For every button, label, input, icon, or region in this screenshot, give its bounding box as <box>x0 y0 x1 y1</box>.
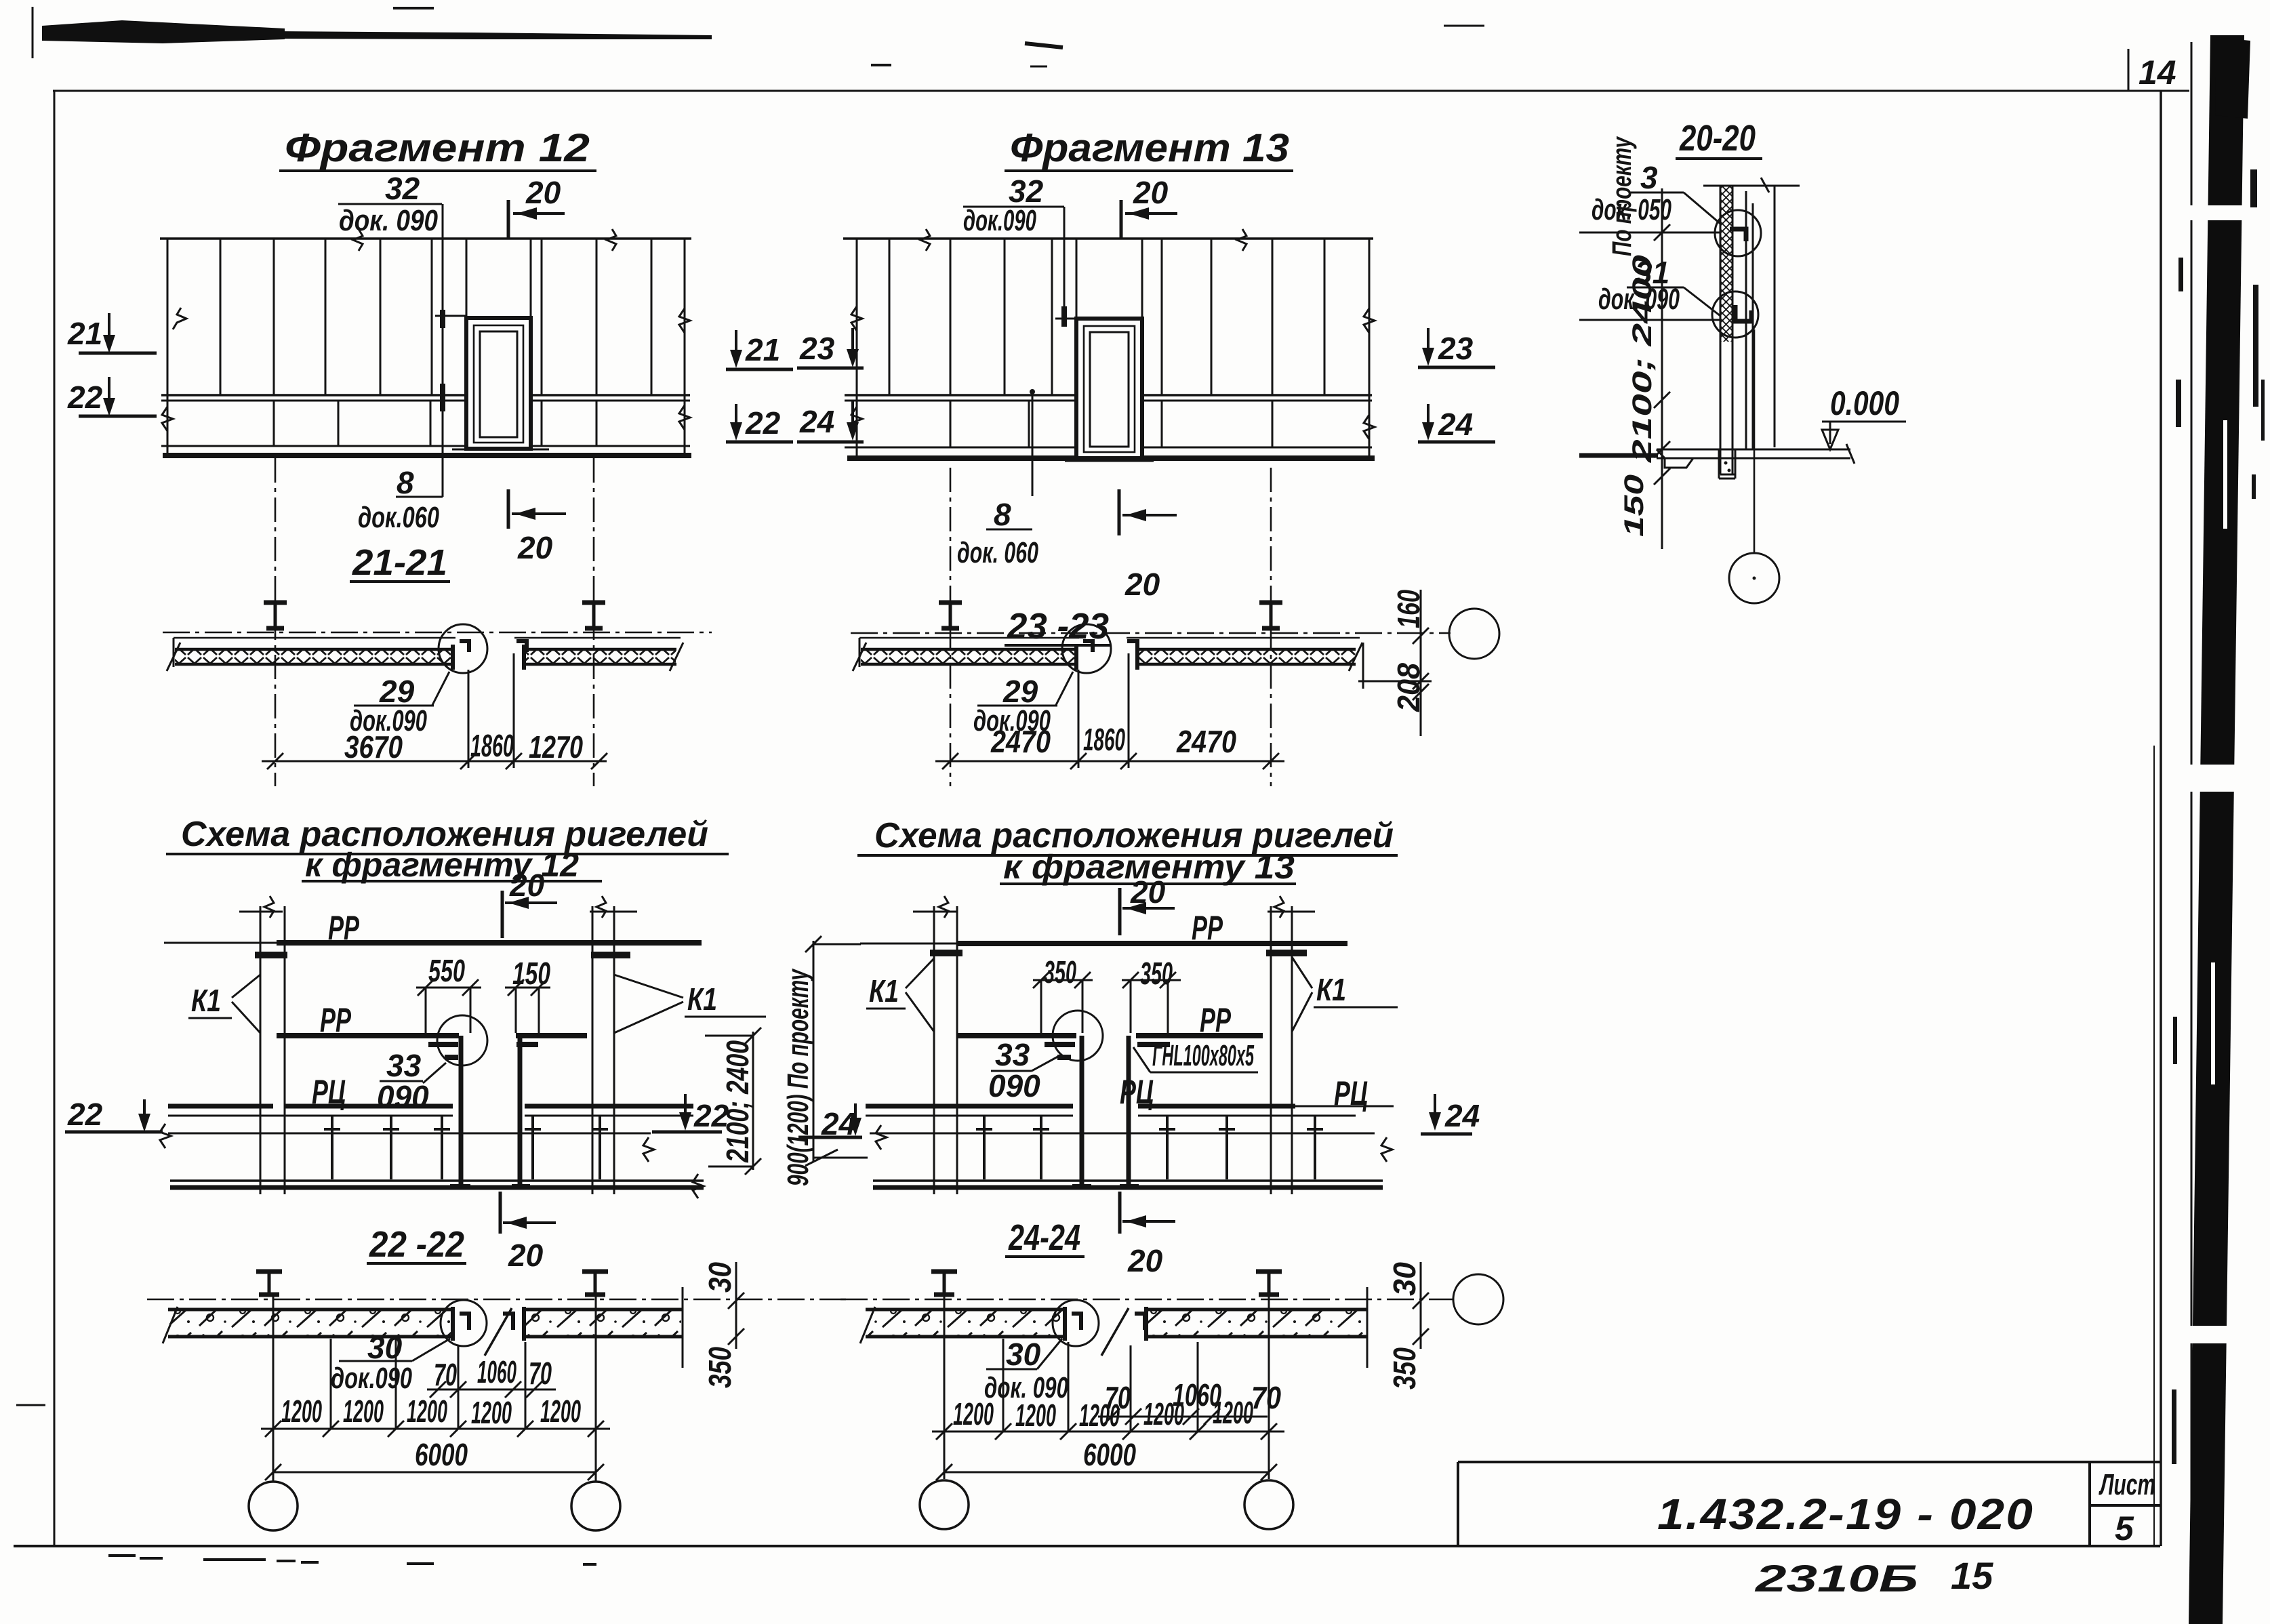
door frag13 <box>1076 319 1142 458</box>
svg-text:23: 23 <box>799 331 835 366</box>
svg-text:2470: 2470 <box>1176 724 1236 759</box>
svg-text:1200: 1200 <box>953 1396 994 1432</box>
I-column symbol left <box>264 603 287 628</box>
svg-text:090: 090 <box>988 1068 1040 1103</box>
I-column symbol right <box>582 603 605 628</box>
dimension line 21-21 <box>262 653 607 769</box>
column K1 left (scheme12) <box>239 896 287 1194</box>
svg-text:70: 70 <box>1251 1380 1281 1415</box>
svg-text:090: 090 <box>377 1079 429 1114</box>
page frame right inner line <box>2153 746 2155 1546</box>
grid circle left (24-24) <box>920 1480 969 1529</box>
ground heavy line <box>163 453 691 458</box>
wall plan band left segment <box>167 638 455 671</box>
svg-text:33: 33 <box>386 1048 422 1083</box>
svg-text:1860: 1860 <box>1083 722 1125 757</box>
grid circle right of 23-23 <box>1449 609 1499 659</box>
binding speckles <box>2172 169 2265 1464</box>
left mark 22 <box>67 377 157 416</box>
detail circle bottom (20-20) <box>1712 291 1758 338</box>
section cut mark 20 (top) <box>508 175 565 239</box>
witness lines 24-24 <box>944 1296 1269 1479</box>
wall panel strip 20-20 <box>1720 186 1735 474</box>
svg-text:33: 33 <box>995 1037 1030 1072</box>
I-beam symbol left 22-22 <box>256 1272 282 1295</box>
title block: Лист label <box>2099 1468 2155 1501</box>
beam PP top (scheme12) <box>164 909 702 947</box>
left mark 24 (between schemes) <box>798 1103 862 1141</box>
svg-text:20: 20 <box>509 868 545 903</box>
svg-text:22 -22: 22 -22 <box>369 1224 464 1265</box>
beams РЦ (scheme12) <box>168 1073 693 1111</box>
break zigzags on frag12 <box>162 229 690 431</box>
steel angle bracket right of joint 21-21 <box>516 641 527 652</box>
top-left scan smudge <box>42 20 712 43</box>
svg-text:24: 24 <box>799 404 834 439</box>
svg-text:К1: К1 <box>1316 972 1346 1007</box>
floor slab left segment 22-22 <box>163 1307 454 1343</box>
floor slab right segment 24-24 <box>1146 1287 1367 1368</box>
dim texts 3670 1860 1270 <box>344 728 583 765</box>
right mark 24 <box>1418 404 1495 442</box>
svg-text:РЦ: РЦ <box>1120 1073 1154 1111</box>
slab joint brackets 24-24 <box>1072 1314 1081 1330</box>
title: Фрагмент 12 <box>279 126 596 171</box>
section cut mark 20 (24-24) <box>1120 1192 1175 1278</box>
binding band white gaps <box>2181 205 2250 1343</box>
wall axis line 23-23 <box>851 632 1451 634</box>
svg-text:Лист: Лист <box>2099 1468 2155 1501</box>
svg-text:2470: 2470 <box>990 724 1051 759</box>
wall axis dash-dot line <box>163 632 712 634</box>
upper panel joints <box>220 239 651 395</box>
floor edge line (scheme12) <box>168 1115 693 1117</box>
page frame left line <box>54 91 56 1545</box>
svg-text:350: 350 <box>702 1347 737 1388</box>
label ГН 100x80x5 <box>1133 1039 1258 1072</box>
dims 70 1060 70 (24-24) <box>1098 1377 1281 1425</box>
dimension line 23-23 <box>935 653 1284 769</box>
left dim column (20-20) <box>1607 136 1670 549</box>
bottom margin dashes <box>16 1405 596 1564</box>
label 8 / док.060 frag13 <box>957 389 1038 569</box>
horizontal band joint (double line) <box>161 394 690 397</box>
title block: document number <box>1657 1490 2034 1539</box>
beam PP top (scheme13) <box>860 909 1347 947</box>
channel glyph bottom <box>1735 305 1751 321</box>
dims 1200 x5 (24-24) <box>953 1395 1253 1433</box>
page frame bottom line <box>14 1545 2160 1547</box>
label К1 left <box>188 975 260 1033</box>
svg-text:32: 32 <box>385 171 420 206</box>
right mark 24 (scheme13) <box>1421 1094 1480 1134</box>
lower panel joints <box>274 401 596 446</box>
inner face lines 20-20 <box>1746 186 1775 449</box>
page frame top line <box>53 90 2189 92</box>
svg-text:350: 350 <box>1387 1347 1422 1389</box>
svg-text:6000: 6000 <box>1083 1437 1136 1472</box>
svg-text:22: 22 <box>745 405 781 441</box>
svg-text:20: 20 <box>1130 874 1166 910</box>
rotated dim 900(1200) По проекту (scheme13 left) <box>782 936 868 1186</box>
svg-text:70: 70 <box>434 1357 457 1392</box>
svg-text:20-20: 20-20 <box>1679 118 1756 159</box>
steel angle brackets 23-23 <box>1083 641 1093 652</box>
svg-text:РР: РР <box>328 909 359 947</box>
right dims 30 / 350 (24-24) <box>1387 1262 1429 1389</box>
grid circle right of 24-24 axis <box>1453 1274 1503 1324</box>
wall elevation outline frag12 <box>160 239 691 455</box>
title: 22-22 <box>367 1224 466 1265</box>
wall plan band right segment 23-23 <box>1127 638 1362 671</box>
dims 70 1060 70 (22-22) <box>427 1354 556 1398</box>
handwritten archive number 2310Б 15 <box>1755 1554 1994 1600</box>
grid circle left (22-22) <box>249 1482 298 1530</box>
door posts (scheme13) <box>1072 1036 1139 1187</box>
column K1 left (scheme13) <box>913 896 962 1194</box>
svg-text:22: 22 <box>67 380 103 415</box>
title: 24-24 <box>1005 1217 1085 1258</box>
svg-text:1200: 1200 <box>407 1394 447 1429</box>
I-column symbol left 23-23 <box>939 603 962 628</box>
svg-text:22: 22 <box>67 1097 103 1132</box>
svg-text:2310Б: 2310Б <box>1755 1557 1918 1600</box>
dimension line 1200s (22-22) <box>261 1421 610 1437</box>
svg-text:30: 30 <box>1387 1262 1422 1296</box>
svg-text:1200: 1200 <box>1143 1396 1184 1432</box>
title block <box>1458 1462 2161 1546</box>
label 32 / док.090 <box>338 171 443 497</box>
svg-text:208: 208 <box>1391 663 1426 712</box>
svg-text:1200: 1200 <box>1079 1398 1120 1433</box>
I-beam symbol right 22-22 <box>582 1272 608 1295</box>
axis line 24-24 <box>840 1299 1453 1301</box>
svg-text:док.090: док.090 <box>331 1362 412 1395</box>
break zigzags frag13 <box>851 229 1375 439</box>
dim 350 right <box>1122 956 1181 1033</box>
svg-text:1200: 1200 <box>281 1394 322 1429</box>
svg-text:21: 21 <box>67 316 102 351</box>
right mark 22 (scheme12) <box>652 1094 729 1133</box>
middle mark 24 <box>797 401 864 442</box>
title: Фрагмент 13 <box>1005 126 1293 171</box>
svg-text:1270: 1270 <box>529 729 583 765</box>
svg-text:550: 550 <box>428 953 465 988</box>
svg-text:РР: РР <box>1200 1001 1231 1039</box>
svg-text:20: 20 <box>517 530 553 565</box>
detail circle 21-21 <box>439 624 487 673</box>
slab joint brackets 22-22 <box>460 1314 469 1330</box>
svg-text:150: 150 <box>1619 474 1649 537</box>
middle mark 23 <box>797 328 864 368</box>
wall plan band left segment 23-23 <box>853 638 1079 671</box>
leader + label 29 / док.090 (23-23) <box>973 672 1073 737</box>
joint slash 24-24 <box>1101 1308 1129 1356</box>
witness line to circle bottom <box>1579 319 1720 321</box>
I-column symbol right 23-23 <box>1259 603 1282 628</box>
svg-text:1200: 1200 <box>343 1394 384 1429</box>
beam hangers (scheme12) <box>324 1116 608 1179</box>
label 33 / 090 <box>377 1048 446 1114</box>
beams РЦ (scheme13) <box>866 1073 1394 1112</box>
svg-text:РР: РР <box>320 1001 351 1039</box>
svg-text:20: 20 <box>1133 175 1169 210</box>
label 30 / док.090 (22-22) <box>331 1330 450 1395</box>
label 31 / док.090 <box>1598 255 1720 316</box>
svg-text:1200: 1200 <box>1213 1395 1253 1430</box>
left mark 21 <box>67 313 157 353</box>
left mark 22 (scheme12, at page margin) <box>65 1097 163 1132</box>
I-beam symbol left 24-24 <box>931 1272 957 1295</box>
dims 1200 x5 (22-22) <box>281 1394 581 1430</box>
floor edge line (scheme13) <box>866 1115 1356 1117</box>
dimension line 1200s (24-24) <box>932 1423 1284 1440</box>
label К1 right (scheme13) <box>1292 957 1398 1032</box>
svg-text:6000: 6000 <box>415 1437 468 1472</box>
right mark 23 <box>1418 328 1495 367</box>
I-beam symbol right 24-24 <box>1256 1272 1282 1295</box>
wall plan band right segment <box>514 638 683 671</box>
svg-text:РР: РР <box>1192 909 1223 947</box>
level mark 0.000 <box>1822 384 1906 449</box>
door sill line <box>452 449 549 451</box>
svg-text:К1: К1 <box>191 983 221 1018</box>
svg-text:док. 060: док. 060 <box>957 536 1038 569</box>
svg-text:РЦ: РЦ <box>1334 1074 1368 1112</box>
dim texts 2470 1860 2470 <box>990 722 1236 759</box>
svg-text:док.060: док.060 <box>358 501 439 534</box>
angle glyph top <box>1730 229 1746 241</box>
svg-text:РЦ: РЦ <box>312 1073 346 1111</box>
svg-text:30: 30 <box>702 1262 737 1293</box>
svg-text:5: 5 <box>2115 1509 2134 1547</box>
floor slab lines (20-20) <box>1579 444 1854 468</box>
label К1 left (scheme13) <box>866 958 934 1032</box>
title: 20-20 <box>1676 118 1762 159</box>
rotated dim 2100; 2400 (scheme12 right) <box>705 1028 761 1175</box>
svg-text:ГНL100x80x5: ГНL100x80x5 <box>1152 1039 1254 1072</box>
dim 6000 (24-24) <box>936 1437 1277 1480</box>
svg-text:док. 090: док. 090 <box>339 204 438 237</box>
door posts (scheme12) <box>450 1036 530 1187</box>
grid circle right (22-22) <box>571 1482 620 1530</box>
top scan dashes <box>33 7 1484 66</box>
svg-text:1860: 1860 <box>470 728 514 763</box>
svg-text:1200: 1200 <box>471 1395 512 1430</box>
dim 6000 (22-22) <box>265 1437 604 1480</box>
door frag12 <box>466 318 531 449</box>
floor slab right segment 22-22 <box>524 1287 683 1368</box>
detail circle 23-23 <box>1062 624 1111 673</box>
axis line 22-22 <box>147 1299 846 1301</box>
detail circle scheme13 <box>1053 1011 1103 1061</box>
section cut mark 20 (top) frag13 <box>1121 175 1177 239</box>
dim 350 left <box>1033 954 1093 1033</box>
section cut mark 20 (22-22) <box>500 1192 556 1273</box>
label К1 right <box>614 975 766 1033</box>
label 33 / 090 (scheme13) <box>988 1037 1061 1103</box>
svg-text:23: 23 <box>1438 331 1474 366</box>
label 32 / док.090 frag13 <box>963 174 1064 327</box>
detail circle 24-24 <box>1053 1300 1099 1346</box>
right end dims 160 / 208 <box>1358 590 1432 736</box>
door jamb lines above door <box>466 239 531 318</box>
top edge line 20-20 <box>1703 178 1800 192</box>
svg-text:2100; 2400: 2100; 2400 <box>1627 255 1657 464</box>
floor slab left segment 24-24 <box>860 1307 1066 1343</box>
column axis lines 23-23 <box>950 468 1271 786</box>
steel angle bracket left of joint 21-21 <box>460 641 469 652</box>
svg-text:24-24: 24-24 <box>1008 1217 1080 1258</box>
column K1 right (scheme13) <box>1266 896 1315 1194</box>
page frame right line <box>2160 91 2162 1546</box>
svg-text:1200: 1200 <box>540 1394 581 1429</box>
witness line to circle top <box>1579 232 1720 234</box>
dim 150 <box>505 956 550 1033</box>
svg-text:21: 21 <box>745 332 780 367</box>
svg-text:Фрагмент 13: Фрагмент 13 <box>1010 126 1289 170</box>
lower band bottom line <box>161 445 690 447</box>
svg-text:20: 20 <box>1124 567 1160 602</box>
title: 23-23 <box>1005 606 1110 647</box>
axis line down to grid circle (20-20) <box>1754 329 1756 553</box>
middle mark 22 <box>726 404 793 442</box>
svg-text:30: 30 <box>367 1330 403 1365</box>
scan page edge line <box>2191 42 2193 1624</box>
leader + label 29 / док.090 <box>350 672 449 737</box>
title block: sheet 5 <box>2115 1509 2134 1547</box>
beam PP middle (scheme12) <box>277 1001 587 1057</box>
detail circle 22-22 <box>441 1300 487 1346</box>
right dims 30 / 350 (22-22) <box>702 1262 744 1388</box>
svg-text:15: 15 <box>1951 1554 1993 1597</box>
sheet number box line <box>2128 49 2130 91</box>
svg-text:8: 8 <box>397 465 414 500</box>
svg-text:160: 160 <box>1391 590 1426 628</box>
svg-text:900(1200) По проекту: 900(1200) По проекту <box>782 968 815 1186</box>
svg-text:1200: 1200 <box>1015 1398 1056 1433</box>
svg-text:30: 30 <box>1006 1337 1041 1372</box>
dim 550 <box>416 953 481 1033</box>
grid circle right (24-24) <box>1244 1480 1293 1529</box>
svg-text:По проекту: По проекту <box>1607 136 1637 256</box>
svg-text:24: 24 <box>1438 407 1473 442</box>
svg-text:14: 14 <box>2139 54 2176 92</box>
svg-text:24: 24 <box>1444 1098 1480 1133</box>
wall elevation outline frag13 <box>843 239 1375 461</box>
svg-text:20: 20 <box>1127 1243 1163 1278</box>
svg-text:70: 70 <box>529 1356 552 1391</box>
svg-text:21-21: 21-21 <box>352 542 447 583</box>
title: 21-21 <box>350 542 450 583</box>
wall below floor (20-20) <box>1719 449 1735 479</box>
svg-text:8: 8 <box>994 497 1011 532</box>
label 3 / док.050 <box>1592 160 1720 226</box>
svg-text:3670: 3670 <box>344 729 403 765</box>
detail circle top (20-20) <box>1715 210 1761 256</box>
middle mark 21 <box>726 330 793 369</box>
section cut mark 20 (bottom) <box>508 489 566 565</box>
title: Схема расположения ригелей (13) <box>857 816 1398 886</box>
svg-text:0.000: 0.000 <box>1830 384 1899 422</box>
section cut mark 20 (scheme13 top) <box>1120 874 1175 935</box>
column K1 right (scheme12) <box>590 896 637 1194</box>
grid circle (20-20) <box>1729 553 1779 603</box>
section cut mark 20 (scheme12 top) <box>502 868 557 938</box>
svg-text:20: 20 <box>508 1238 544 1273</box>
label 8 / док.060 <box>358 465 443 534</box>
sheet number 14 <box>2139 54 2176 92</box>
beam hangers (scheme13) <box>976 1116 1323 1179</box>
detail circle scheme12 <box>437 1015 487 1065</box>
label 30 / док.090 (24-24) <box>984 1337 1068 1404</box>
svg-text:К1: К1 <box>687 981 717 1017</box>
title: Схема расположения ригелей <box>166 815 729 884</box>
svg-text:К1: К1 <box>869 973 899 1009</box>
svg-text:2100; 2400: 2100; 2400 <box>720 1040 755 1163</box>
section cut mark 20 (bottom) frag13 <box>1119 489 1177 602</box>
binding edge black band <box>2189 35 2250 1624</box>
svg-text:1060: 1060 <box>477 1354 516 1389</box>
svg-text:Фрагмент 12: Фрагмент 12 <box>285 126 590 170</box>
beam PP middle (scheme13) <box>956 1001 1263 1057</box>
svg-text:док.090: док.090 <box>963 204 1036 237</box>
floor slab lines bottom (scheme13) <box>870 1125 1392 1187</box>
witness lines 22-22 <box>273 1296 596 1481</box>
svg-text:1.432.2-19 - 020: 1.432.2-19 - 020 <box>1657 1490 2034 1539</box>
column axis lines <box>275 458 594 786</box>
svg-text:20: 20 <box>525 175 561 210</box>
svg-text:3: 3 <box>1640 160 1658 195</box>
joint slash 22-22 <box>485 1308 512 1356</box>
lintel mark left of door <box>435 315 466 317</box>
floor slab lines bottom (scheme12) <box>160 1124 704 1198</box>
